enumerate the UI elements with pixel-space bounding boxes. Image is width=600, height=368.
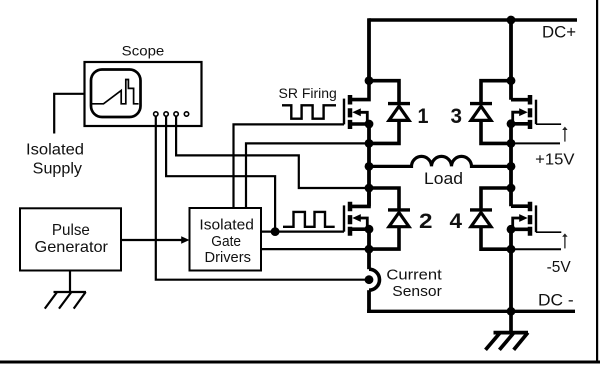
svg-text:3: 3 [451, 104, 463, 128]
svg-text:Drivers: Drivers [205, 249, 251, 266]
svg-text:DC+: DC+ [542, 24, 576, 42]
wire pulse generator to gate drivers (arrow) [121, 239, 186, 241]
node Q3 source [507, 119, 516, 128]
wire scope T1 to current sensor [156, 116, 366, 279]
node D3 return [507, 139, 516, 148]
transistor Q4 [511, 202, 536, 236]
DC- bottom rail [367, 310, 575, 313]
transistor Q1 [344, 81, 369, 129]
node current sensor tap [365, 275, 374, 284]
svg-text:4: 4 [450, 209, 463, 233]
scope waveform [91, 80, 138, 104]
svg-text:-5V: -5V [547, 259, 572, 276]
node D4 return [507, 245, 516, 254]
svg-text:Generator: Generator [35, 239, 109, 256]
wire gate driver to Q1 source sense [246, 143, 369, 208]
current sensor arc [369, 269, 380, 290]
svg-text:Scope: Scope [122, 42, 165, 58]
node Q1 drain [365, 76, 374, 85]
right leg upper conductor [509, 20, 513, 100]
svg-text:Pulse: Pulse [52, 222, 90, 239]
left leg upper conductor [367, 18, 371, 80]
wire scope T3 to switch node [176, 116, 369, 188]
transistor Q2 [344, 188, 369, 236]
Q3 gate wire [536, 123, 561, 125]
svg-text:Gate: Gate [211, 233, 241, 250]
node Q4 source [507, 225, 516, 234]
left leg bottom conductor [367, 290, 371, 313]
right leg mid conductor [509, 124, 513, 206]
right leg lower conductor [509, 229, 513, 311]
wire isolated supply to scope [54, 94, 84, 134]
svg-text:DC -: DC - [538, 290, 574, 309]
left leg mid conductor [367, 124, 371, 206]
Q4 source reference wire [511, 248, 561, 250]
svg-text:Load: Load [424, 170, 463, 188]
scope terminal T4 [184, 112, 188, 116]
svg-text:2: 2 [419, 209, 433, 233]
wire gate driver to Q1 gate [234, 124, 345, 208]
ground (DC-) [486, 311, 529, 350]
wire scope T2 to Q2 gate node [166, 116, 275, 231]
node top rail right leg [507, 16, 516, 25]
Q3 source reference wire [511, 142, 560, 144]
node Q2 gate tap [271, 227, 280, 236]
SR firing waveform [282, 105, 336, 118]
node switch lower right [507, 184, 516, 193]
svg-text:SR Firing: SR Firing [279, 86, 337, 102]
scope box [85, 62, 202, 126]
DC+ top rail [369, 18, 578, 21]
scope screen [91, 70, 141, 118]
wire gate driver to Q2 source sense [261, 248, 369, 250]
svg-text:Sensor: Sensor [392, 283, 442, 300]
diode D2 [369, 188, 410, 249]
scope terminal T2 [164, 112, 168, 116]
pulse generator box [20, 208, 121, 270]
node load left [365, 162, 374, 171]
svg-text:Isolated: Isolated [26, 142, 84, 159]
node D1 return [365, 139, 374, 148]
diode D3 [470, 81, 511, 144]
node Q2 source [365, 225, 374, 234]
diode D4 [470, 188, 511, 249]
ground (pulse generator) [45, 271, 86, 309]
svg-text:1: 1 [418, 104, 429, 128]
scope terminal T1 [154, 112, 158, 116]
svg-text:+15V: +15V [535, 152, 575, 169]
left leg lower conductor [367, 229, 371, 269]
load inductor [369, 156, 511, 166]
svg-text:Isolated: Isolated [199, 217, 254, 234]
node D2 return [365, 245, 374, 254]
svg-text:Supply: Supply [33, 160, 83, 177]
transistor Q3 [511, 95, 536, 129]
node Q3 drain branch [507, 76, 516, 85]
border right [596, 0, 598, 364]
svg-text:Current: Current [386, 267, 442, 284]
lower gate waveform [283, 212, 335, 227]
-5V arrow [562, 233, 567, 248]
isolated gate drivers box [190, 208, 262, 271]
node Q1 source [365, 120, 374, 129]
+15V arrow [562, 127, 567, 142]
border bottom [0, 361, 600, 364]
node switch lower left [365, 184, 374, 193]
Q4 gate wire [536, 231, 561, 233]
node bottom rail right leg [507, 307, 516, 316]
scope terminal T3 [174, 112, 178, 116]
diode D1 [369, 81, 410, 144]
node load right [507, 162, 516, 171]
wire gate driver to Q2 gate [261, 231, 344, 233]
